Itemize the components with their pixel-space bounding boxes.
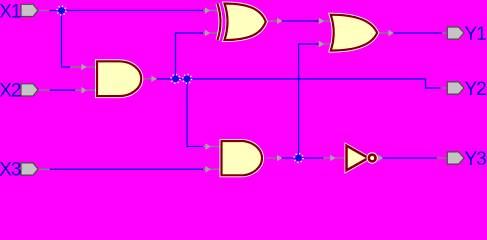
wire NOT U5 output to Y3 [376, 155, 448, 162]
svg-text:X3: X3 [0, 160, 21, 181]
AND gate U1 [97, 61, 141, 96]
svg-text:X1: X1 [0, 2, 21, 23]
NOT gate U5 [347, 146, 376, 171]
AND gate U4 [222, 141, 263, 175]
svg-text:Y1: Y1 [465, 24, 487, 45]
svg-text:Y3: Y3 [465, 149, 487, 170]
junction B [171, 74, 180, 83]
wire junction A to XOR U2 top input [62, 7, 219, 14]
input pin X3 [0, 160, 38, 181]
wire X2 to AND U1 bottom input [38, 87, 97, 94]
svg-text:X2: X2 [0, 81, 21, 102]
junction D [294, 154, 303, 163]
junction C [183, 74, 192, 83]
XOR gate U2 [218, 4, 266, 41]
wire XOR U2 output to OR U3 top input [266, 18, 332, 25]
wire junction C down to AND U4 top input [187, 79, 221, 150]
wire AND U1 output to junctions B and C, then to Y2 [142, 76, 448, 89]
wire junction B up to XOR U2 bottom input [176, 30, 219, 79]
svg-text:Y2: Y2 [465, 79, 487, 100]
wire X3 to AND U4 bottom input [38, 166, 221, 173]
input pin X2 [0, 81, 38, 102]
wire OR U3 output to Y1 [378, 30, 448, 37]
OR gate U3 [331, 15, 378, 51]
input pin X1 [0, 2, 38, 23]
wire AND U4 output to NOT U5 input [266, 155, 347, 162]
junction A [57, 6, 66, 15]
output pin Y2 [447, 79, 486, 100]
wire junction A down to AND U1 top input [62, 11, 97, 71]
output pin Y1 [447, 24, 486, 45]
wire X1 pentagon to junction A [38, 10, 62, 12]
wire junction D up to OR U3 bottom input [299, 41, 332, 158]
output pin Y3 [447, 149, 486, 170]
